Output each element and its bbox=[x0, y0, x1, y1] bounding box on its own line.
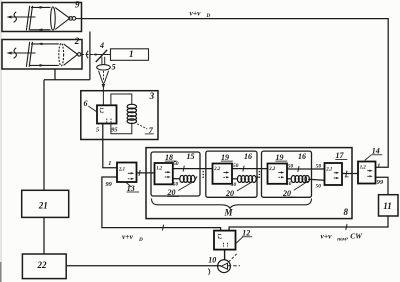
svg-text:1,2: 1,2 bbox=[156, 166, 163, 171]
svg-text:21: 21 bbox=[38, 200, 48, 210]
svg-text:19: 19 bbox=[221, 153, 229, 162]
svg-text:18: 18 bbox=[165, 153, 173, 162]
svg-text:1: 1 bbox=[108, 160, 111, 167]
svg-text:2,2: 2,2 bbox=[268, 167, 276, 172]
svg-text:, CW: , CW bbox=[346, 232, 364, 241]
svg-text:2,2: 2,2 bbox=[213, 167, 221, 172]
svg-text:D: D bbox=[206, 13, 211, 19]
svg-text:12: 12 bbox=[242, 229, 250, 238]
svg-text:M: M bbox=[224, 208, 234, 218]
svg-text:50: 50 bbox=[316, 164, 322, 170]
svg-text:v+v: v+v bbox=[321, 232, 333, 241]
svg-text:50: 50 bbox=[286, 181, 292, 187]
svg-text:99: 99 bbox=[377, 179, 384, 186]
svg-text:95: 95 bbox=[111, 126, 117, 133]
svg-text:50: 50 bbox=[231, 182, 237, 188]
svg-text:6: 6 bbox=[84, 99, 88, 108]
svg-text:2,1: 2,1 bbox=[325, 168, 332, 173]
svg-text:20: 20 bbox=[282, 189, 291, 198]
svg-text:50: 50 bbox=[233, 163, 239, 169]
svg-text:15: 15 bbox=[187, 152, 195, 161]
svg-text:1: 1 bbox=[129, 49, 134, 59]
svg-text:50: 50 bbox=[316, 184, 322, 190]
svg-text:11: 11 bbox=[383, 201, 392, 211]
svg-text:19: 19 bbox=[276, 153, 284, 162]
svg-text:99: 99 bbox=[106, 181, 113, 188]
svg-text:50: 50 bbox=[173, 181, 179, 187]
svg-text:22: 22 bbox=[37, 260, 48, 270]
svg-text:2: 2 bbox=[74, 36, 80, 46]
svg-text:4: 4 bbox=[99, 41, 104, 50]
svg-text:8: 8 bbox=[344, 207, 349, 217]
svg-text:20: 20 bbox=[167, 188, 176, 197]
svg-text:50: 50 bbox=[173, 161, 179, 167]
svg-text:3: 3 bbox=[149, 91, 155, 101]
svg-text:10: 10 bbox=[208, 256, 216, 265]
svg-text:9: 9 bbox=[75, 0, 80, 9]
svg-text:16: 16 bbox=[298, 152, 306, 161]
svg-text:5: 5 bbox=[112, 63, 116, 72]
svg-text:2,1: 2,1 bbox=[118, 168, 125, 173]
svg-text:5: 5 bbox=[96, 126, 99, 133]
svg-text:D: D bbox=[138, 237, 143, 243]
svg-text:50: 50 bbox=[288, 163, 294, 169]
svg-text:v+v: v+v bbox=[122, 232, 134, 241]
svg-text:1,2: 1,2 bbox=[98, 107, 103, 114]
svg-text:14: 14 bbox=[372, 147, 380, 156]
svg-text:пом: пом bbox=[337, 236, 346, 242]
svg-text:17: 17 bbox=[336, 151, 345, 160]
svg-text:16: 16 bbox=[244, 152, 252, 161]
svg-text:13: 13 bbox=[127, 184, 135, 193]
svg-text:20: 20 bbox=[225, 189, 234, 198]
svg-text:1: 1 bbox=[377, 163, 380, 170]
svg-text:v+v: v+v bbox=[190, 8, 202, 17]
svg-text:1,2: 1,2 bbox=[216, 233, 221, 240]
svg-text:1,2: 1,2 bbox=[360, 166, 367, 171]
